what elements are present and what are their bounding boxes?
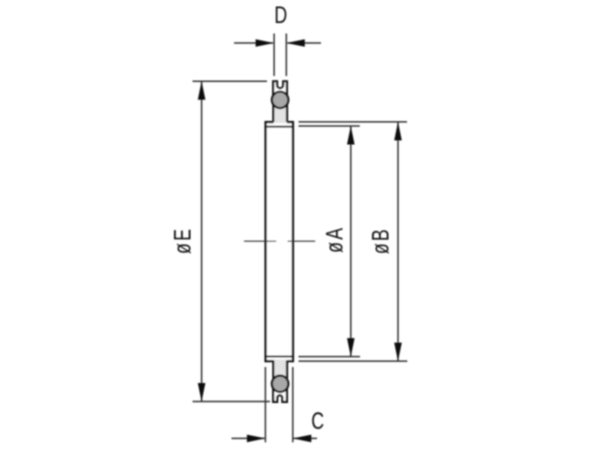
- dimension øA: dimension line with arrows: [347, 126, 355, 357]
- dimension øA: extension lines: [299, 126, 361, 357]
- dimension øB: extension lines: [299, 122, 408, 361]
- bottom fork clip: [273, 386, 287, 402]
- o-ring cross-section, top: [272, 92, 288, 108]
- dimension D: extension lines: [274, 34, 286, 77]
- svg-text:øB: øB: [368, 227, 394, 254]
- top stem (inner centering piece, top): [273, 105, 287, 123]
- dimension C: dimension line with arrows: [232, 435, 318, 443]
- dimension øE: dimension line with arrows: [198, 81, 206, 401]
- dimension øB: dimension line with arrows: [394, 122, 402, 361]
- dimension C: extension lines: [265, 367, 292, 442]
- svg-text:øA: øA: [322, 226, 348, 253]
- svg-text:C: C: [311, 409, 324, 435]
- ring body (outer band cross-section): [265, 121, 294, 362]
- o-ring cross-section, bottom: [272, 376, 288, 392]
- dimension D: dimension line with arrows: [234, 39, 321, 47]
- centerline through ring at mid height: [244, 240, 315, 242]
- svg-text:D: D: [274, 2, 287, 28]
- dimension øE: extension lines: [193, 81, 271, 401]
- top fork clip: [273, 81, 287, 97]
- svg-text:øE: øE: [170, 227, 196, 254]
- bottom stem (inner centering piece, bottom): [273, 360, 287, 379]
